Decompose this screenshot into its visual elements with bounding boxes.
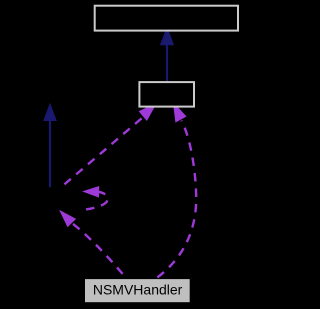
node: middle class box bbox=[139, 82, 194, 107]
node: NSMVHandler box bbox=[85, 279, 191, 303]
wire: dashed usage edge from left node to middle box bbox=[60, 104, 156, 189]
wire: dashed self-loop usage edge on left node bbox=[82, 187, 108, 210]
wire: blue inheritance arrow left node to upper-left node bbox=[44, 104, 56, 187]
wire: blue inheritance arrow middle box to top box bbox=[161, 28, 173, 82]
wire: dashed usage edge from NSMVHandler to middle box (right curve) bbox=[155, 103, 197, 279]
wire: dashed usage edge from NSMVHandler to left node bbox=[60, 211, 126, 278]
node: top base-class box bbox=[95, 6, 238, 31]
svg-text:NSMVHandler: NSMVHandler bbox=[93, 282, 183, 298]
